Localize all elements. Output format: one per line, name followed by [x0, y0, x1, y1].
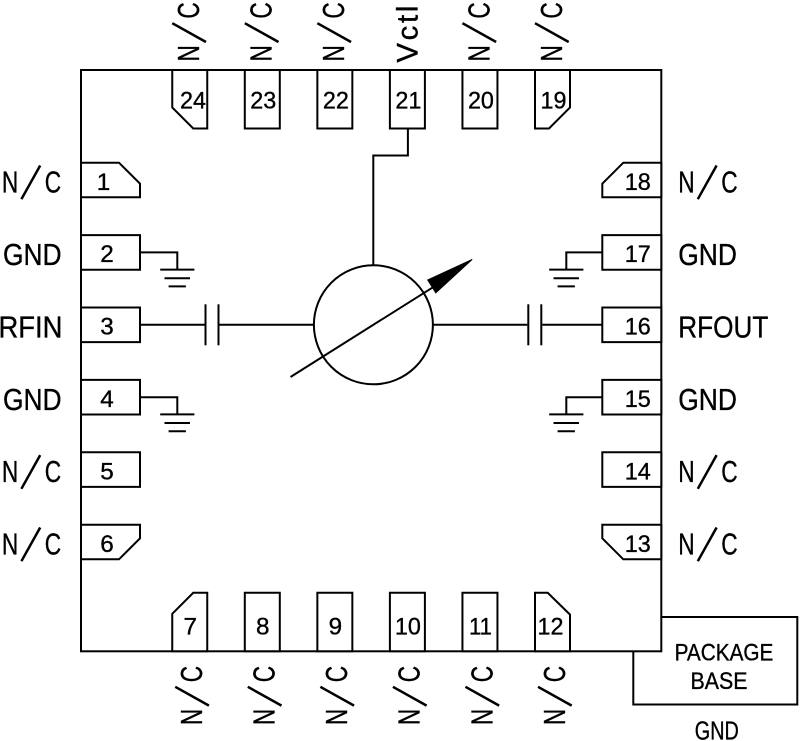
- ground symbol at pin 4: [140, 397, 194, 431]
- wire C2 to pin 16 RFOUT: [542, 324, 602, 326]
- svg-text:20: 20: [468, 88, 494, 115]
- pin 5: [81, 452, 140, 487]
- pin 8 name N/C (rotated): [248, 666, 282, 725]
- pin 13: [602, 525, 661, 560]
- svg-text:PACKAGE: PACKAGE: [675, 640, 774, 667]
- svg-text:24: 24: [180, 88, 206, 115]
- wire Vctl from pin 21 to attenuator: [373, 129, 408, 267]
- pin 14: [602, 452, 661, 487]
- pin 11 name N/C (rotated): [465, 666, 499, 725]
- pin 7: [172, 593, 207, 652]
- svg-text:5: 5: [100, 458, 114, 485]
- pin 20: [462, 70, 497, 129]
- ground symbol at pin 17: [549, 252, 602, 286]
- capacitor C2: [528, 304, 541, 345]
- ground symbol at pin 2: [140, 252, 194, 286]
- pin 23: [245, 70, 280, 129]
- svg-text:23: 23: [250, 88, 276, 115]
- pin 13 name N/C: [678, 527, 737, 561]
- svg-text:6: 6: [100, 531, 114, 558]
- svg-text:17: 17: [625, 241, 651, 268]
- svg-text:3: 3: [100, 314, 114, 341]
- pin 18: [602, 163, 661, 198]
- pin 12: [535, 593, 570, 652]
- svg-text:4: 4: [100, 386, 114, 413]
- svg-text:16: 16: [625, 314, 651, 341]
- wire attenuator to C2: [433, 324, 528, 326]
- package outline: [81, 70, 661, 651]
- pin 11: [462, 593, 497, 652]
- pin 12 name N/C (rotated): [538, 666, 572, 725]
- svg-text:13: 13: [625, 531, 651, 558]
- pin 23 name N/C (rotated): [245, 2, 279, 61]
- svg-text:12: 12: [538, 613, 564, 640]
- svg-text:8: 8: [256, 613, 270, 640]
- pin 3: [81, 308, 140, 343]
- pin 5 name N/C: [2, 455, 61, 489]
- package base (exposed paddle) box: [633, 617, 797, 705]
- pin 10: [390, 593, 425, 652]
- svg-text:22: 22: [323, 88, 349, 115]
- pin 2: [81, 235, 140, 270]
- pin 17: [602, 235, 661, 270]
- svg-text:15: 15: [625, 386, 651, 413]
- svg-text:2: 2: [100, 241, 114, 268]
- svg-text:BASE: BASE: [691, 668, 748, 695]
- pin 18 name N/C: [678, 165, 737, 199]
- svg-text:1: 1: [97, 169, 111, 196]
- pin 4: [81, 380, 140, 415]
- pin 20 name N/C (rotated): [462, 2, 496, 61]
- pin 1 name N/C: [2, 165, 61, 199]
- pin 8: [245, 593, 280, 652]
- pin 19: [535, 70, 570, 129]
- pin 10 name N/C (rotated): [393, 666, 427, 725]
- pin 1: [81, 163, 140, 198]
- pin 24 name N/C (rotated): [172, 2, 206, 61]
- ground symbol at pin 15: [549, 397, 602, 431]
- svg-text:GND: GND: [695, 717, 739, 741]
- svg-text:GND: GND: [3, 238, 62, 272]
- pin 15: [602, 380, 661, 415]
- pin 14 name N/C: [678, 455, 737, 489]
- wire C1 to attenuator: [220, 324, 315, 326]
- svg-text:14: 14: [625, 458, 651, 485]
- svg-text:GND: GND: [678, 383, 737, 417]
- svg-text:9: 9: [329, 613, 343, 640]
- pin 9: [317, 593, 352, 652]
- pin 22 name N/C (rotated): [317, 2, 351, 61]
- pin 22: [317, 70, 352, 129]
- svg-text:RFIN: RFIN: [0, 310, 63, 344]
- svg-text:GND: GND: [678, 238, 737, 272]
- svg-text:10: 10: [395, 613, 421, 640]
- svg-text:18: 18: [625, 169, 651, 196]
- pin 6: [81, 525, 140, 560]
- pin 21: [390, 70, 425, 129]
- svg-text:7: 7: [184, 613, 198, 640]
- pin 9 name N/C (rotated): [320, 666, 354, 725]
- svg-text:11: 11: [469, 613, 492, 640]
- svg-text:19: 19: [541, 88, 567, 115]
- pin 24: [172, 70, 207, 129]
- capacitor C1: [206, 304, 219, 345]
- pin 7 name N/C (rotated): [175, 666, 209, 725]
- svg-text:RFOUT: RFOUT: [678, 310, 768, 344]
- attenuator U1 (variable attenuator symbol): [291, 259, 473, 384]
- pin 16: [602, 308, 661, 343]
- pin 6 name N/C: [2, 527, 61, 561]
- wire RFIN from pin 3 to C1: [140, 324, 205, 326]
- svg-text:GND: GND: [3, 383, 62, 417]
- svg-text:21: 21: [395, 88, 421, 115]
- pin 19 name N/C (rotated): [535, 2, 569, 61]
